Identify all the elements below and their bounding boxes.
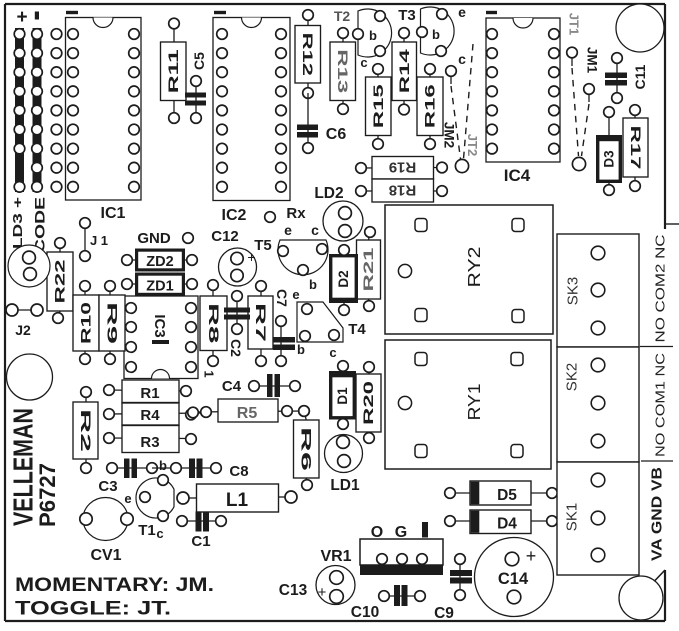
svg-text:b: b xyxy=(369,28,377,43)
jumper pad JM1/JT1 xyxy=(567,47,595,170)
svg-text:C11: C11 xyxy=(632,64,648,89)
svg-text:R9: R9 xyxy=(104,302,119,344)
resistor R7 xyxy=(248,281,273,367)
resistor R5 xyxy=(188,399,310,422)
svg-text:R10: R10 xyxy=(79,302,94,344)
IC U2 (IC2) xyxy=(213,11,290,224)
board number P6727 xyxy=(35,463,60,527)
svg-text:C9: C9 xyxy=(434,605,454,622)
diode D1 xyxy=(331,361,355,430)
svg-text:R12: R12 xyxy=(300,33,315,77)
svg-text:C3: C3 xyxy=(98,478,117,495)
resistor R16 xyxy=(417,64,443,150)
svg-text:RY2: RY2 xyxy=(464,247,484,288)
svg-text:R19: R19 xyxy=(389,159,417,176)
trimmer capacitor CV1 xyxy=(80,498,133,565)
VR1 pin labels O G I xyxy=(371,522,428,541)
svg-text:R2: R2 xyxy=(78,409,93,452)
resistor R20 xyxy=(356,362,381,444)
svg-text:R8: R8 xyxy=(206,303,221,345)
resistor R1 xyxy=(104,380,192,403)
mounting hole left-middle xyxy=(7,354,53,400)
svg-text:R1: R1 xyxy=(140,385,159,402)
svg-text:D5: D5 xyxy=(497,487,517,504)
jumper pad JM2/JT2 xyxy=(446,44,473,173)
svg-text:C6: C6 xyxy=(326,126,347,143)
capacitor C1 xyxy=(177,512,227,551)
header column - trace xyxy=(32,28,43,192)
capacitor C10 xyxy=(351,585,426,621)
capacitor C11 xyxy=(605,53,648,104)
resistor R18 xyxy=(356,179,448,202)
IC U1 (IC1) xyxy=(66,11,142,222)
svg-text:e: e xyxy=(284,222,292,238)
svg-text:C5: C5 xyxy=(191,52,207,70)
resistor R6 xyxy=(294,406,320,491)
label JT2 xyxy=(465,134,480,156)
svg-text:Rx: Rx xyxy=(286,205,306,222)
svg-text:C13: C13 xyxy=(279,582,308,599)
svg-text:D1: D1 xyxy=(335,387,350,405)
svg-text:R3: R3 xyxy=(140,434,159,451)
resistor R2 xyxy=(73,387,98,474)
svg-text:b: b xyxy=(309,277,317,292)
resistor R15 xyxy=(366,64,392,150)
IC U3 (IC3) xyxy=(124,296,198,379)
svg-text:C2: C2 xyxy=(228,339,244,357)
resistor R9 xyxy=(99,281,125,365)
svg-text:1: 1 xyxy=(201,370,216,377)
svg-text:C1: C1 xyxy=(191,533,210,550)
svg-text:LD1: LD1 xyxy=(330,477,360,494)
brand text VELLEMAN xyxy=(7,408,38,526)
diode D2 xyxy=(331,245,357,316)
zener diode ZD1 xyxy=(122,274,198,294)
diode D4 xyxy=(445,510,558,534)
separator tick xyxy=(641,460,673,462)
transistor T2 xyxy=(334,8,392,70)
svg-text:LD2: LD2 xyxy=(314,185,343,202)
svg-text:G: G xyxy=(395,524,407,541)
separator tick xyxy=(640,346,673,348)
terminal block SK3 xyxy=(557,234,639,347)
svg-text:IC3: IC3 xyxy=(151,314,168,337)
header column + trace xyxy=(14,28,25,192)
svg-text:VA GND VB: VA GND VB xyxy=(648,467,665,561)
svg-text:c: c xyxy=(360,55,367,70)
mounting hole top-right xyxy=(616,4,664,52)
label JM1 xyxy=(584,47,599,74)
LED LD1 xyxy=(325,435,363,495)
svg-text:C10: C10 xyxy=(351,604,379,621)
svg-text:SK3: SK3 xyxy=(564,277,581,305)
svg-text:R6: R6 xyxy=(299,427,314,472)
svg-text:VELLEMAN: VELLEMAN xyxy=(7,408,38,526)
terminal block SK1 xyxy=(557,462,639,575)
svg-text:e: e xyxy=(458,4,466,20)
svg-text:JM2: JM2 xyxy=(441,122,456,148)
svg-text:J 1: J 1 xyxy=(90,233,108,248)
svg-text:T4: T4 xyxy=(348,321,366,338)
svg-text:CV1: CV1 xyxy=(90,547,121,564)
svg-text:+: + xyxy=(526,546,537,566)
zener diode ZD2 xyxy=(122,250,198,270)
svg-text:C8: C8 xyxy=(229,463,248,480)
label JM2 xyxy=(441,122,456,148)
svg-text:C7: C7 xyxy=(274,289,290,307)
svg-text:R18: R18 xyxy=(389,182,417,199)
svg-text:T3: T3 xyxy=(398,7,416,24)
capacitor C6 xyxy=(297,93,346,153)
svg-text:J2: J2 xyxy=(15,322,31,338)
node e (T5 emitter) xyxy=(284,222,292,238)
svg-text:R15: R15 xyxy=(371,83,386,128)
inductor L1 xyxy=(177,484,297,512)
svg-text:C4: C4 xyxy=(222,378,242,395)
resistor R12 xyxy=(295,10,321,99)
electrolytic capacitor C12 xyxy=(211,228,256,286)
electrolytic capacitor C14 xyxy=(475,538,554,617)
resistor R13 xyxy=(330,28,356,115)
svg-text:T5: T5 xyxy=(254,237,272,254)
svg-text:R17: R17 xyxy=(628,126,643,170)
svg-text:LD3 +: LD3 + xyxy=(10,196,25,249)
svg-text:C14: C14 xyxy=(498,570,529,588)
svg-text:+: + xyxy=(318,584,327,601)
svg-text:T1: T1 xyxy=(138,522,156,539)
resistor R10 xyxy=(73,281,99,365)
relay RY2 xyxy=(385,205,553,334)
node GND xyxy=(137,230,193,247)
voltage regulator VR1 xyxy=(320,539,443,575)
diode D5 xyxy=(445,481,558,505)
label LD3 + xyxy=(10,196,25,249)
svg-text:+: + xyxy=(16,7,27,28)
svg-text:JT2: JT2 xyxy=(465,134,480,156)
capacitor C5 xyxy=(185,52,207,123)
transistor T3 xyxy=(398,7,454,56)
svg-text:JM1: JM1 xyxy=(584,47,599,74)
node c (T3) xyxy=(458,51,466,67)
capacitor C7 xyxy=(273,289,295,366)
svg-text:c: c xyxy=(458,51,466,67)
electrolytic capacitor C13 xyxy=(279,566,355,605)
capacitor C8 xyxy=(152,459,249,481)
capacitor C4 xyxy=(222,374,300,397)
svg-text:IC2: IC2 xyxy=(222,207,247,224)
diode D3 xyxy=(598,107,621,196)
resistor R17 xyxy=(623,105,648,192)
svg-text:NO COM2 NC: NO COM2 NC xyxy=(653,235,667,343)
IC U4 (IC4) xyxy=(486,11,560,185)
svg-text:CODE: CODE xyxy=(31,197,47,253)
svg-text:c: c xyxy=(329,345,336,360)
svg-text:R11: R11 xyxy=(166,48,181,93)
svg-text:GND: GND xyxy=(137,230,171,247)
capacitor C3 xyxy=(98,459,157,496)
capacitor C2 xyxy=(224,291,250,357)
svg-text:MOMENTARY: JM.: MOMENTARY: JM. xyxy=(15,575,214,596)
resistor R4 xyxy=(104,403,206,425)
svg-text:R16: R16 xyxy=(423,83,438,128)
header pad column CODE xyxy=(51,29,62,192)
resistor R3 xyxy=(104,426,197,453)
svg-text:b: b xyxy=(297,342,305,357)
resistor R21 xyxy=(357,227,381,312)
LED LD2 xyxy=(314,185,363,241)
svg-text:D4: D4 xyxy=(497,516,517,533)
node Rx xyxy=(265,205,307,222)
svg-text:L1: L1 xyxy=(226,490,249,511)
svg-text:IC4: IC4 xyxy=(504,166,531,185)
svg-text:R20: R20 xyxy=(361,381,376,425)
svg-text:e: e xyxy=(124,491,131,506)
resistor R8 xyxy=(200,280,227,367)
polarity label - xyxy=(35,12,39,20)
svg-text:b: b xyxy=(159,458,167,473)
node e (T3) xyxy=(458,4,466,20)
net labels NO COM2 NC xyxy=(653,235,667,343)
capacitor C9 xyxy=(434,554,472,622)
transistor T5 xyxy=(254,237,328,292)
svg-text:R5: R5 xyxy=(237,405,258,422)
terminal block SK2 xyxy=(557,347,639,462)
resistor R19 xyxy=(356,157,448,180)
label CODE xyxy=(31,197,47,253)
svg-text:RY1: RY1 xyxy=(464,384,484,421)
transistor T4 xyxy=(292,287,366,360)
net labels NO COM1 NC xyxy=(653,353,667,457)
wire link J2 xyxy=(6,304,43,338)
svg-text:SK1: SK1 xyxy=(563,503,580,531)
net labels VA GND VB xyxy=(648,467,665,561)
svg-text:VR1: VR1 xyxy=(320,548,351,565)
svg-text:ZD2: ZD2 xyxy=(146,254,173,270)
svg-text:IC1: IC1 xyxy=(101,205,126,222)
svg-text:R7: R7 xyxy=(253,303,268,342)
svg-text:R4: R4 xyxy=(140,407,160,424)
transistor T1 xyxy=(124,458,174,541)
legend MOMENTARY: JM. xyxy=(15,575,214,596)
IC3 pin-1 marker xyxy=(201,370,216,377)
svg-text:SK2: SK2 xyxy=(563,363,580,391)
svg-text:D2: D2 xyxy=(336,270,351,287)
svg-text:TOGGLE: JT.: TOGGLE: JT. xyxy=(15,598,171,620)
svg-text:P6727: P6727 xyxy=(35,463,60,527)
wire link J1 xyxy=(80,218,108,262)
svg-text:e: e xyxy=(292,287,299,302)
svg-text:R22: R22 xyxy=(53,260,68,304)
LED LD3 xyxy=(8,245,50,287)
svg-text:D3: D3 xyxy=(602,150,617,168)
resistor R22 xyxy=(47,238,73,324)
svg-text:R21: R21 xyxy=(361,247,376,292)
relay RY1 xyxy=(385,340,551,469)
svg-text:c: c xyxy=(156,526,163,541)
resistor R11 xyxy=(161,18,187,123)
label JT1 xyxy=(566,13,581,35)
svg-text:NO COM1 NC: NO COM1 NC xyxy=(653,353,667,457)
svg-text:C12: C12 xyxy=(211,228,239,245)
svg-text:JT1: JT1 xyxy=(566,13,581,35)
legend TOGGLE: JT. xyxy=(15,598,171,620)
svg-text:c: c xyxy=(311,222,319,238)
resistor R14 xyxy=(392,28,417,115)
svg-text:O: O xyxy=(371,524,383,541)
polarity label + xyxy=(16,7,27,28)
svg-text:b: b xyxy=(432,27,440,42)
svg-text:T2: T2 xyxy=(334,8,351,24)
mounting hole bottom-right xyxy=(619,576,663,620)
svg-text:R14: R14 xyxy=(397,48,412,93)
svg-text:R13: R13 xyxy=(335,49,350,94)
svg-text:ZD1: ZD1 xyxy=(146,279,173,295)
node c (T5 collector) xyxy=(311,222,319,238)
